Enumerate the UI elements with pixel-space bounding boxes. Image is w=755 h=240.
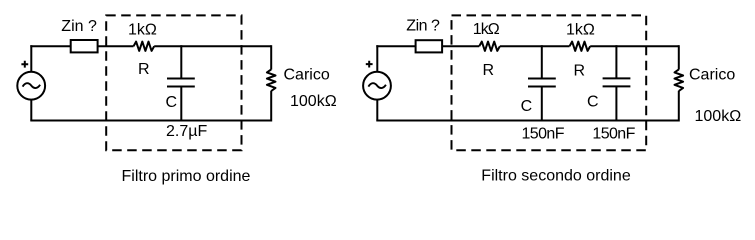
- AC source V1 plus polarity mark: [21, 61, 28, 68]
- wire: capacitor C2 bottom plate to bottom rail: [615, 86, 617, 120]
- wire: node 2 to capacitor C2 top plate: [615, 45, 617, 78]
- dashed filter boundary box (left): [106, 15, 241, 150]
- svg-text:R: R: [138, 61, 150, 78]
- dashed filter boundary box (right): [452, 15, 647, 150]
- svg-text:Carico: Carico: [284, 67, 330, 84]
- svg-text:100kΩ: 100kΩ: [290, 93, 337, 110]
- wire: capacitor C bottom plate to bottom rail: [180, 87, 182, 121]
- wire: load top lead: [270, 45, 272, 69]
- wire: source bottom lead (right): [376, 99, 378, 120]
- svg-text:R: R: [483, 62, 495, 79]
- wire: source bottom lead: [30, 99, 32, 120]
- wire: source top lead: [30, 45, 32, 72]
- svg-text:150nF: 150nF: [522, 126, 565, 143]
- wire: top wire source to Zin box (right): [376, 45, 415, 47]
- load resistor Carico 100k zigzag: [267, 69, 276, 91]
- svg-text:C: C: [521, 98, 533, 115]
- capacitor C1 plates: [528, 79, 556, 87]
- AC source V2 circle: [363, 72, 391, 100]
- AC source V1 sine symbol: [23, 83, 40, 88]
- wire: load bottom lead (right): [678, 91, 680, 122]
- wire: source top lead (right): [376, 45, 378, 72]
- wire: resistor R to load corner: [154, 45, 271, 47]
- wire: bottom rail: [30, 120, 271, 122]
- resistor R 1k zigzag: [134, 42, 155, 51]
- wire: resistor R1 to resistor R2: [500, 45, 570, 47]
- resistor R1 1k zigzag (right): [479, 42, 500, 51]
- svg-text:150nF: 150nF: [592, 126, 635, 143]
- wire: node to capacitor C top plate: [180, 45, 182, 78]
- svg-text:Zin ?: Zin ?: [406, 18, 440, 35]
- svg-text:100kΩ: 100kΩ: [695, 108, 742, 125]
- wire: resistor R2 to load corner (right): [590, 45, 679, 47]
- wire: load top lead (right): [678, 45, 680, 69]
- svg-text:1kΩ: 1kΩ: [566, 21, 595, 38]
- wire: bottom rail (right): [376, 120, 679, 122]
- svg-text:2.7µF: 2.7µF: [166, 123, 207, 140]
- svg-text:Zin ?: Zin ?: [61, 18, 97, 35]
- svg-text:C: C: [166, 94, 178, 111]
- wire: Zin box to resistor R: [98, 45, 134, 47]
- wire: Zin box to resistor R1 (right): [442, 45, 479, 47]
- AC source V2 sine symbol: [368, 83, 386, 88]
- svg-text:1kΩ: 1kΩ: [128, 21, 157, 38]
- svg-text:C: C: [587, 94, 599, 111]
- wire: node 1 to capacitor C1 top plate: [541, 45, 543, 78]
- resistor R2 1k zigzag (right): [570, 42, 591, 51]
- load resistor Carico 100k zigzag (right): [675, 69, 684, 91]
- capacitor C2 plates: [603, 78, 631, 86]
- svg-text:Carico: Carico: [689, 66, 735, 83]
- svg-text:R: R: [574, 63, 586, 80]
- svg-text:1kΩ: 1kΩ: [473, 21, 500, 38]
- wire: capacitor C1 bottom plate to bottom rail: [541, 87, 543, 121]
- wire: load bottom lead: [270, 91, 272, 122]
- wire: top wire source to Zin box: [30, 45, 70, 47]
- capacitor C plates: [167, 79, 195, 87]
- impedance box Zin: [71, 40, 98, 52]
- AC source V2 plus polarity mark: [366, 61, 373, 68]
- svg-text:Filtro secondo ordine: Filtro secondo ordine: [481, 168, 631, 185]
- impedance box Zin (right): [416, 40, 443, 52]
- svg-text:Filtro primo ordine: Filtro primo ordine: [122, 168, 251, 185]
- AC source V1 circle: [17, 72, 45, 100]
